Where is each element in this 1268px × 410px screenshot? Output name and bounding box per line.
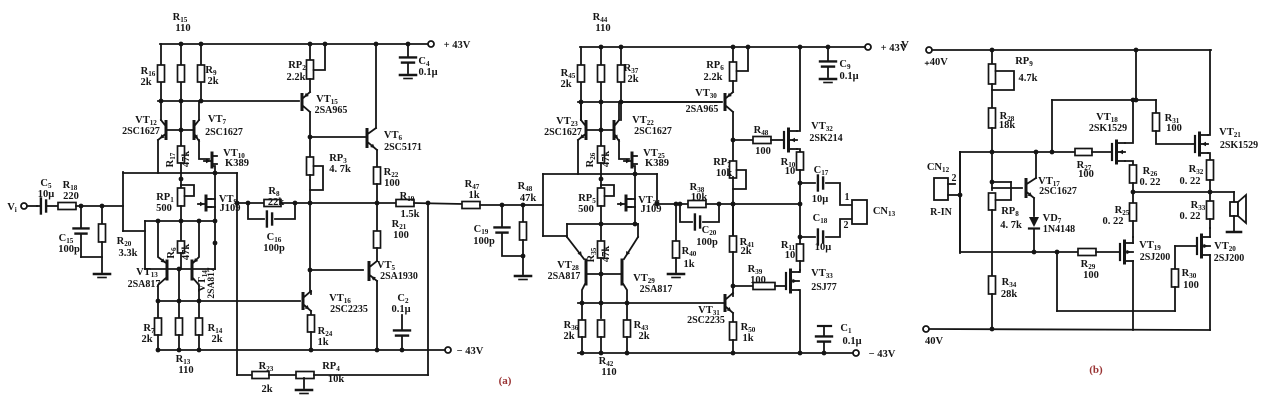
svg-text:2k: 2k bbox=[211, 334, 222, 345]
svg-text:2SC1627: 2SC1627 bbox=[205, 127, 243, 138]
svg-text:(a): (a) bbox=[499, 375, 512, 387]
jfet VT9 J109 bbox=[214, 173, 216, 269]
transistor VT23 2SC1627 bbox=[585, 122, 588, 139]
wire output column down bbox=[799, 183, 801, 237]
capacitor C17 10u bbox=[800, 182, 815, 184]
wire R47 to node bbox=[480, 204, 543, 206]
svg-text:2SC2235: 2SC2235 bbox=[687, 315, 725, 326]
node mid rail R15 bbox=[179, 99, 184, 104]
transistor VT30 2SA965 bbox=[732, 81, 734, 92]
node emitter VT14 bbox=[197, 219, 202, 224]
wire VT15 collector bbox=[309, 112, 311, 137]
resistor R21 100 bbox=[376, 203, 378, 231]
svg-text:2k: 2k bbox=[638, 331, 649, 342]
svg-text:1: 1 bbox=[845, 192, 850, 203]
node VT5 base line bbox=[308, 268, 313, 273]
svg-text:2SA1930: 2SA1930 bbox=[380, 271, 418, 282]
svg-text:1k: 1k bbox=[468, 190, 479, 201]
svg-text:R-IN: R-IN bbox=[930, 207, 952, 218]
wire VT22 emitter to K389 bbox=[619, 140, 629, 159]
svg-text:2SK1529: 2SK1529 bbox=[1089, 123, 1127, 134]
wire VT7 emitter to K389 bbox=[199, 140, 209, 159]
resistor R22 100 bbox=[374, 167, 381, 184]
wire stage2 left frame bbox=[542, 174, 544, 236]
svg-text:2k: 2k bbox=[141, 334, 152, 345]
resistor R7 2k bbox=[157, 301, 159, 318]
svg-text:0.1μ: 0.1μ bbox=[842, 336, 861, 347]
wire VT20 gate from R30 bbox=[1175, 245, 1197, 247]
resistor R47 1k bbox=[462, 202, 480, 209]
svg-text:2SA817: 2SA817 bbox=[128, 279, 161, 290]
resistor R38 10k bbox=[688, 201, 706, 208]
wire VT12 emitter down bbox=[157, 140, 159, 173]
node R48b line bbox=[731, 138, 736, 143]
wire stage2 frame top bbox=[543, 173, 657, 175]
wire VT30 collector bbox=[732, 112, 734, 140]
terminal -43V stage2 bbox=[853, 350, 859, 356]
potentiometer RP9 4.7k bbox=[991, 50, 993, 64]
transistor VT17 2SC1627 bbox=[1025, 180, 1028, 197]
resistor R23 2k bbox=[252, 372, 269, 379]
wire VT16 collector up bbox=[310, 291, 312, 294]
svg-text:100p: 100p bbox=[263, 243, 285, 254]
wire R19 right bbox=[414, 203, 462, 204]
svg-text:100p: 100p bbox=[473, 236, 495, 247]
wire lower rail y=301 bbox=[158, 300, 300, 302]
node VT6 emitter output bbox=[375, 201, 380, 206]
svg-text:100: 100 bbox=[1166, 123, 1182, 134]
svg-text:1k: 1k bbox=[683, 259, 694, 270]
wire RP1 to lower line bbox=[180, 206, 182, 221]
svg-text:0.1μ: 0.1μ bbox=[391, 304, 410, 315]
wire output line b bbox=[1133, 191, 1234, 193]
node -43V R7 bbox=[156, 348, 161, 353]
wire R8 right bbox=[281, 202, 309, 204]
svg-text:4. 7k: 4. 7k bbox=[329, 164, 351, 175]
svg-text:K389: K389 bbox=[645, 158, 669, 169]
wire VT20 source to rail bbox=[1209, 255, 1211, 330]
wire VT18 drain up bbox=[1125, 100, 1133, 143]
jfet VT24 J109 bbox=[634, 174, 636, 224]
resistor R28 18k bbox=[989, 108, 996, 128]
wire b input riser bbox=[959, 152, 961, 251]
svg-text:100: 100 bbox=[384, 178, 400, 189]
svg-text:110: 110 bbox=[595, 23, 610, 34]
capacitor C19 100p bbox=[501, 205, 503, 226]
ground R48 bbox=[515, 275, 531, 278]
jfet VT10 K389 bbox=[211, 153, 214, 167]
wire gate line VT19 bbox=[960, 251, 1078, 253]
resistor R43 2k bbox=[626, 303, 628, 320]
svg-text:2k: 2k bbox=[560, 79, 571, 90]
capacitor C2 0.1u bbox=[401, 315, 403, 330]
svg-text:2SC2235: 2SC2235 bbox=[330, 304, 368, 315]
wire input bbox=[27, 205, 37, 207]
node input-R20 bbox=[100, 204, 105, 209]
wire feedback riser x=428 bbox=[427, 203, 429, 375]
wire VT32 source bbox=[797, 149, 800, 152]
resistor R25 0.22 bbox=[1132, 192, 1134, 203]
wire R48b to VT32 gate bbox=[771, 139, 784, 141]
svg-text:100: 100 bbox=[750, 275, 766, 286]
wire input node bbox=[76, 205, 123, 207]
svg-text:47k: 47k bbox=[520, 193, 537, 204]
transistor VT5 2SA1930 bbox=[368, 263, 371, 280]
svg-text:2SC1627: 2SC1627 bbox=[122, 126, 160, 137]
svg-text:10μ: 10μ bbox=[815, 242, 832, 253]
node base-R17 bbox=[179, 128, 184, 133]
node R48 bbox=[521, 203, 526, 208]
wire b upper frame bbox=[1051, 100, 1053, 152]
wire VT21 source bbox=[1208, 153, 1210, 160]
svg-text:V: V bbox=[901, 39, 909, 51]
svg-text:2k: 2k bbox=[261, 384, 272, 395]
node output column bbox=[798, 202, 803, 207]
wire base line VT13-VT14 bbox=[145, 268, 215, 270]
mosfet VT33 2SJ77 bbox=[785, 273, 787, 289]
wire VT19 drain bbox=[1132, 237, 1134, 243]
svg-text:− 43V: − 43V bbox=[457, 346, 484, 357]
wire mid column down bbox=[309, 203, 311, 292]
svg-text:100p: 100p bbox=[58, 244, 80, 255]
svg-text:500: 500 bbox=[578, 204, 594, 215]
potentiometer RP8 4.7k bbox=[989, 193, 996, 210]
node -43V R14 bbox=[197, 348, 202, 353]
resistor R13 110 bbox=[178, 269, 180, 318]
node lower rail R14 bbox=[197, 299, 202, 304]
svg-text:28k: 28k bbox=[1001, 289, 1018, 300]
resistor R15 110 bbox=[180, 44, 182, 130]
wire VT19 source to rail bbox=[1132, 261, 1134, 330]
svg-text:2SA817: 2SA817 bbox=[548, 271, 581, 282]
capacitor C20 100p bbox=[680, 204, 692, 222]
svg-text:100: 100 bbox=[393, 230, 409, 241]
capacitor C15 100p bbox=[80, 206, 82, 228]
transistor VT22 2SC1627 bbox=[613, 122, 616, 139]
connector CN12 bbox=[934, 178, 948, 200]
resistor R40 1k bbox=[675, 204, 677, 241]
wire bias bottom line bbox=[1057, 310, 1175, 312]
transistor VT6 2SC5171 bbox=[366, 130, 369, 147]
wire VT17 emitter bbox=[1033, 198, 1035, 216]
svg-text:0. 22: 0. 22 bbox=[1180, 211, 1201, 222]
wire R31 to VT21 gate bbox=[1156, 131, 1195, 144]
svg-text:0. 22: 0. 22 bbox=[1140, 177, 1161, 188]
resistor R26 0.22 bbox=[1130, 165, 1137, 183]
transistor VT13 2SA817 bbox=[166, 261, 169, 279]
svg-text:2k: 2k bbox=[207, 76, 218, 87]
resistor R14 2k bbox=[198, 301, 200, 318]
resistor R39 100 bbox=[753, 283, 775, 290]
resistor R37 2k bbox=[620, 47, 622, 120]
svg-text:10k: 10k bbox=[716, 168, 733, 179]
node -43V R13 bbox=[177, 348, 182, 353]
wire VT32 drain to rail bbox=[797, 47, 800, 131]
resistor R48b 100 bbox=[753, 137, 771, 144]
wire mid line b bbox=[960, 151, 1075, 153]
svg-text:40V: 40V bbox=[925, 336, 944, 347]
wire feedback lower line bbox=[237, 374, 252, 376]
wire bias riser bbox=[1056, 252, 1058, 311]
node emitter VT13 bbox=[156, 219, 161, 224]
mosfet VT20 2SJ200 bbox=[1196, 238, 1198, 254]
wire mid rail y=101 bbox=[158, 100, 299, 102]
svg-text:47k: 47k bbox=[181, 244, 192, 261]
wire VT33 drain bbox=[799, 270, 800, 272]
resistor R42 110 bbox=[598, 320, 605, 337]
wire R22-RP4 bbox=[269, 374, 296, 376]
wire frame top horizontal bbox=[123, 172, 237, 174]
potentiometer RP4 10k bbox=[296, 372, 314, 379]
potentiometer RP1 500 bbox=[180, 173, 182, 188]
svg-text:2SA965: 2SA965 bbox=[315, 105, 348, 116]
wire C15-R20 join bbox=[81, 256, 102, 258]
terminal Vi input bbox=[21, 203, 27, 209]
svg-text:110: 110 bbox=[175, 23, 190, 34]
resistor R8 22k bbox=[264, 200, 281, 207]
node C16 right bbox=[293, 201, 298, 206]
resistor R50 1k bbox=[730, 322, 737, 340]
resistor R48 47k bbox=[522, 205, 524, 222]
wire y100 line bbox=[1052, 99, 1156, 101]
wire b left frame bbox=[959, 152, 961, 253]
svg-text:2k: 2k bbox=[740, 246, 751, 257]
svg-text:2SA817: 2SA817 bbox=[640, 284, 673, 295]
wire R39 to gate bbox=[775, 285, 786, 287]
svg-text:2SJ77: 2SJ77 bbox=[811, 282, 837, 293]
svg-text:10: 10 bbox=[785, 166, 796, 177]
wire R8 line bbox=[237, 202, 264, 204]
wire R42 column upper bbox=[600, 274, 602, 318]
wire VT17 collector bbox=[1035, 152, 1037, 178]
terminal +40V bbox=[926, 47, 932, 53]
svg-text:2SC5171: 2SC5171 bbox=[384, 142, 422, 153]
wire VT31 collector bbox=[732, 293, 734, 296]
svg-text:100: 100 bbox=[755, 146, 771, 157]
resistor R33 0.22 bbox=[1209, 192, 1211, 201]
node frame-K389 bbox=[213, 171, 218, 176]
node mid rail R9 bbox=[199, 99, 204, 104]
transistor VT29 2SA817 bbox=[624, 237, 638, 259]
svg-text:₊40V: ₊40V bbox=[924, 57, 948, 68]
wire +43V rail stage2 bbox=[580, 46, 865, 48]
potentiometer RP2 2.2k bbox=[309, 44, 311, 60]
svg-text:47k: 47k bbox=[601, 246, 612, 263]
svg-text:2SC1627: 2SC1627 bbox=[544, 127, 582, 138]
transistor VT7 2SC1627 bbox=[198, 101, 200, 120]
svg-text:4. 7k: 4. 7k bbox=[1000, 220, 1022, 231]
node input-C15 bbox=[79, 204, 84, 209]
wire RP8 top node line bbox=[992, 181, 1011, 183]
transistor VT12 2SC1627 bbox=[160, 101, 162, 120]
wire RP4 right to riser bbox=[314, 374, 428, 376]
svg-text:2SA817: 2SA817 bbox=[207, 267, 217, 298]
potentiometer RP6 2.2k bbox=[732, 47, 734, 62]
resistor R31 100 bbox=[1155, 100, 1157, 113]
wire base join VT12-VT7 bbox=[166, 129, 194, 131]
mosfet VT21 2SK1529 bbox=[1194, 136, 1196, 152]
wire VT17 base line bbox=[992, 187, 1022, 189]
svg-text:(b): (b) bbox=[1089, 364, 1103, 376]
resistor R18 220 bbox=[58, 203, 76, 210]
svg-text:3.3k: 3.3k bbox=[119, 248, 138, 259]
capacitor C16 100p bbox=[248, 203, 264, 219]
svg-text:2k: 2k bbox=[140, 77, 151, 88]
wire feedback column x=237 bbox=[236, 173, 238, 375]
wire y100 to rail riser bbox=[1135, 50, 1137, 100]
wire VT23 emitter down bbox=[577, 140, 579, 174]
svg-text:+ 43V: + 43V bbox=[444, 40, 471, 51]
wire VT21 drain up bbox=[1208, 50, 1210, 135]
wire CN12 pin2 stub bbox=[948, 183, 955, 185]
node RP7 output line bbox=[731, 202, 736, 207]
resistor R20 3.3k bbox=[101, 206, 103, 224]
resistor R10 10 bbox=[797, 152, 804, 170]
wire base join stage2 bbox=[586, 129, 614, 131]
resistor R16 2k bbox=[160, 44, 162, 101]
resistor R29 100 bbox=[1078, 249, 1096, 256]
svg-text:47k: 47k bbox=[601, 151, 612, 168]
svg-text:0. 22: 0. 22 bbox=[1103, 216, 1124, 227]
wire lower line stage2 bbox=[567, 223, 638, 225]
wire lower line y=221 bbox=[145, 220, 215, 222]
svg-text:220: 220 bbox=[63, 191, 79, 202]
svg-text:− 43V: − 43V bbox=[869, 349, 896, 360]
wire VT13 base column bbox=[144, 221, 146, 269]
svg-text:10μ: 10μ bbox=[812, 194, 829, 205]
resistor R19 1.5k bbox=[396, 200, 414, 207]
speaker bbox=[1233, 192, 1235, 202]
potentiometer RP7 10k bbox=[732, 140, 734, 161]
capacitor C9 0.1u bbox=[827, 47, 829, 60]
wire -43V rail stage2 bbox=[578, 352, 853, 354]
resistor R35 47k bbox=[600, 224, 602, 241]
resistor R44 110 bbox=[600, 47, 602, 130]
terminal +43V bbox=[428, 41, 434, 47]
node RP3 bottom output line bbox=[308, 201, 313, 206]
node RP1 bottom bbox=[179, 219, 184, 224]
node VT9 source bbox=[213, 219, 218, 224]
wire VT31 emitter bbox=[732, 313, 734, 322]
wire stage2 R38 line bbox=[657, 203, 699, 205]
wire stage2 emitter stubs bbox=[566, 224, 568, 237]
svg-text:2SC1627: 2SC1627 bbox=[1039, 186, 1077, 197]
wire R27 to VT18 gate bbox=[1092, 151, 1112, 153]
svg-text:2: 2 bbox=[952, 173, 957, 184]
node C17 bbox=[798, 181, 803, 186]
wire left frame vertical bbox=[122, 172, 124, 231]
mosfet VT19 2SJ200 bbox=[1119, 244, 1121, 260]
svg-text:0.1μ: 0.1μ bbox=[418, 67, 437, 78]
svg-text:2SJ200: 2SJ200 bbox=[1214, 253, 1245, 264]
svg-text:100p: 100p bbox=[696, 237, 718, 248]
transistor VT31 2SC2235 bbox=[724, 296, 727, 311]
wire VT33 gate line bbox=[733, 285, 753, 287]
mosfet VT32 2SK214 bbox=[783, 132, 785, 148]
wire output to stage2 right bbox=[733, 203, 800, 205]
resistor R32 0.22 bbox=[1207, 160, 1214, 180]
node C16 left bbox=[246, 201, 251, 206]
wire -43V rail bbox=[158, 349, 444, 351]
node lower rail R13 bbox=[177, 299, 182, 304]
wire VT29 collector bbox=[622, 282, 627, 303]
wire VT33 source to rail bbox=[799, 290, 800, 353]
resistor R36 2k bbox=[581, 303, 583, 320]
wire VT23 collector bbox=[580, 102, 582, 120]
wire R29 to VT19 gate bbox=[1096, 251, 1120, 253]
svg-text:1k: 1k bbox=[317, 337, 328, 348]
wire VT22 collector bbox=[618, 102, 620, 120]
wire VT28 collector bbox=[582, 282, 586, 303]
svg-text:500: 500 bbox=[156, 203, 172, 214]
wire VT6 emitter bbox=[376, 150, 378, 167]
connector CN13 bbox=[852, 200, 867, 224]
svg-text:110: 110 bbox=[601, 367, 616, 378]
svg-text:18k: 18k bbox=[999, 120, 1016, 131]
node VT6 base line bbox=[308, 135, 313, 140]
svg-text:2SK1529: 2SK1529 bbox=[1220, 140, 1258, 151]
terminal -43V bbox=[445, 347, 451, 353]
node C19 bbox=[500, 203, 505, 208]
ground R20 bbox=[94, 273, 110, 276]
svg-text:2.2k: 2.2k bbox=[287, 72, 306, 83]
node mid rail R16 bbox=[159, 99, 164, 104]
jfet VT25 K389 bbox=[631, 153, 634, 167]
terminal -40V bbox=[923, 326, 929, 332]
transistor VT15 2SA965 bbox=[309, 79, 311, 92]
wire base join VT28-VT29 bbox=[586, 273, 622, 275]
svg-text:0. 22: 0. 22 bbox=[1180, 176, 1201, 187]
capacitor C4 0.1u bbox=[407, 44, 409, 56]
capacitor C5 10u bbox=[37, 205, 40, 207]
capacitor C18 10u bbox=[800, 236, 815, 238]
wire VT30 base line bbox=[621, 101, 722, 103]
potentiometer RP3 4.7k bbox=[309, 137, 311, 157]
diode VD7 1N4148 bbox=[1029, 217, 1039, 227]
transistor VT16 2SC2235 bbox=[302, 294, 305, 309]
wire RP5 to line bbox=[600, 206, 602, 224]
wire mid rail stage2 bbox=[578, 101, 721, 103]
resistor R27 100 bbox=[1075, 149, 1092, 156]
mosfet VT18 2SK1529 bbox=[1111, 144, 1113, 160]
wire output line bbox=[309, 202, 396, 204]
node R48-C19 join bbox=[521, 254, 526, 259]
svg-text:K389: K389 bbox=[225, 158, 249, 169]
wire VT16 emitter bbox=[310, 311, 312, 315]
svg-text:10μ: 10μ bbox=[38, 189, 55, 200]
wire VT6 base line bbox=[310, 136, 365, 138]
svg-text:2SC1627: 2SC1627 bbox=[634, 126, 672, 137]
capacitor C1 0.1u bbox=[818, 325, 831, 327]
svg-text:2: 2 bbox=[844, 220, 849, 231]
wire stage2 lower rail bbox=[578, 302, 723, 304]
wire VT5 collector down bbox=[376, 281, 378, 350]
resistor R17 47k bbox=[180, 130, 182, 146]
wire -40V rail bbox=[929, 329, 1210, 330]
svg-text:100: 100 bbox=[1183, 280, 1199, 291]
svg-text:2k: 2k bbox=[563, 331, 574, 342]
resistor R41 2k bbox=[732, 204, 734, 236]
potentiometer RP5 500 bbox=[600, 174, 602, 188]
wire CN12 to frame bbox=[948, 194, 960, 196]
resistor R11 10 bbox=[799, 237, 801, 244]
svg-text:0.1μ: 0.1μ bbox=[839, 71, 858, 82]
node lower rail R7 bbox=[156, 299, 161, 304]
resistor R34 28k bbox=[989, 276, 996, 294]
wire frame stub to VT13 base bbox=[123, 230, 145, 232]
transistor VT28 2SA817 bbox=[567, 237, 584, 259]
svg-text:1.5k: 1.5k bbox=[401, 209, 420, 220]
